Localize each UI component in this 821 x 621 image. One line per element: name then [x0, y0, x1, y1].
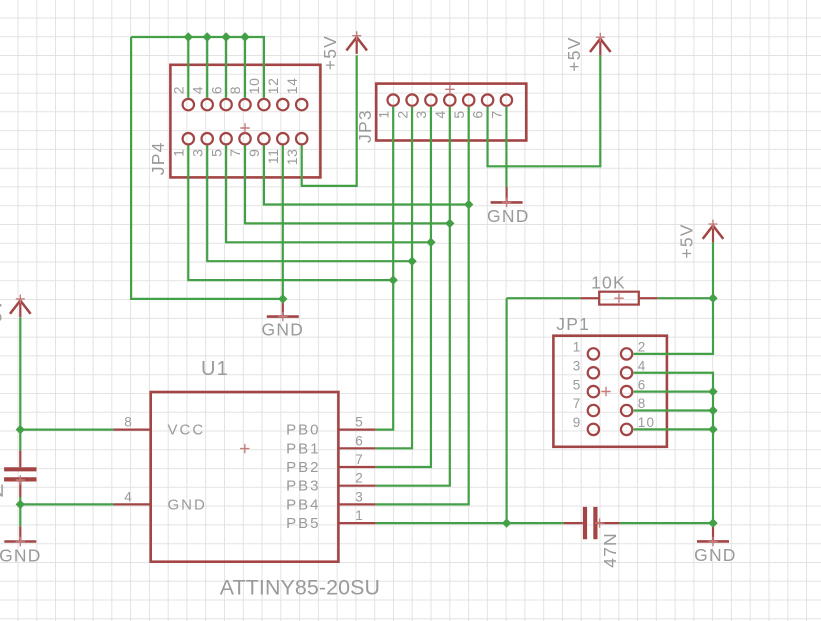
svg-text:9: 9 [573, 415, 582, 430]
svg-text:JP4: JP4 [148, 141, 168, 175]
svg-text:6: 6 [355, 433, 364, 448]
svg-text:JP1: JP1 [556, 314, 590, 334]
svg-text:11: 11 [265, 149, 281, 165]
svg-text:+5V: +5V [564, 36, 584, 71]
svg-text:1: 1 [375, 110, 391, 118]
svg-text:2: 2 [638, 340, 647, 355]
svg-text:7: 7 [573, 396, 582, 411]
svg-text:1: 1 [573, 340, 582, 355]
svg-text:2: 2 [171, 86, 187, 94]
svg-text:7: 7 [489, 110, 505, 118]
svg-text:PB2: PB2 [286, 459, 320, 476]
svg-text:3: 3 [189, 149, 205, 157]
svg-text:5: 5 [451, 110, 467, 118]
svg-text:47N: 47N [0, 480, 6, 500]
svg-text:12: 12 [265, 78, 281, 95]
svg-text:+5V: +5V [677, 223, 697, 258]
svg-text:2: 2 [355, 471, 364, 486]
svg-text:GND: GND [0, 545, 42, 565]
svg-text:PB5: PB5 [286, 515, 320, 532]
svg-text:GND: GND [262, 320, 305, 340]
svg-text:VCC: VCC [168, 422, 206, 439]
svg-text:7: 7 [227, 149, 243, 157]
svg-text:5: 5 [208, 149, 224, 157]
svg-text:4: 4 [124, 489, 133, 504]
svg-text:5: 5 [355, 415, 364, 430]
svg-text:8: 8 [124, 415, 133, 430]
svg-text:4: 4 [432, 110, 448, 118]
svg-text:+5V: +5V [0, 298, 6, 333]
svg-text:GND: GND [694, 545, 737, 565]
svg-text:6: 6 [208, 86, 224, 94]
svg-text:PB1: PB1 [286, 440, 320, 457]
svg-text:1: 1 [355, 508, 364, 523]
svg-text:PB3: PB3 [286, 478, 320, 495]
svg-text:13: 13 [284, 149, 300, 166]
svg-text:47N: 47N [600, 532, 620, 568]
svg-text:5: 5 [573, 377, 582, 392]
svg-text:3: 3 [573, 358, 582, 373]
svg-text:10: 10 [638, 415, 655, 430]
svg-text:14: 14 [284, 78, 300, 95]
svg-text:3: 3 [413, 110, 429, 118]
svg-text:ATTINY85-20SU: ATTINY85-20SU [220, 575, 380, 599]
svg-text:PB0: PB0 [286, 422, 320, 439]
svg-text:GND: GND [168, 496, 207, 513]
svg-text:10: 10 [246, 78, 262, 95]
svg-text:8: 8 [227, 86, 243, 94]
svg-text:8: 8 [638, 396, 647, 411]
svg-text:GND: GND [487, 206, 530, 226]
svg-text:U1: U1 [201, 358, 229, 380]
svg-text:2: 2 [394, 110, 410, 118]
svg-text:9: 9 [246, 149, 262, 157]
svg-text:6: 6 [470, 110, 486, 118]
svg-text:PB4: PB4 [286, 496, 320, 513]
svg-text:3: 3 [355, 489, 364, 504]
svg-text:10K: 10K [591, 272, 626, 292]
svg-text:6: 6 [638, 377, 647, 392]
svg-text:7: 7 [355, 452, 364, 467]
svg-text:4: 4 [638, 358, 647, 373]
svg-text:JP3: JP3 [355, 109, 375, 143]
svg-text:1: 1 [171, 149, 187, 157]
svg-text:4: 4 [189, 86, 205, 94]
svg-text:+5V: +5V [320, 35, 340, 70]
